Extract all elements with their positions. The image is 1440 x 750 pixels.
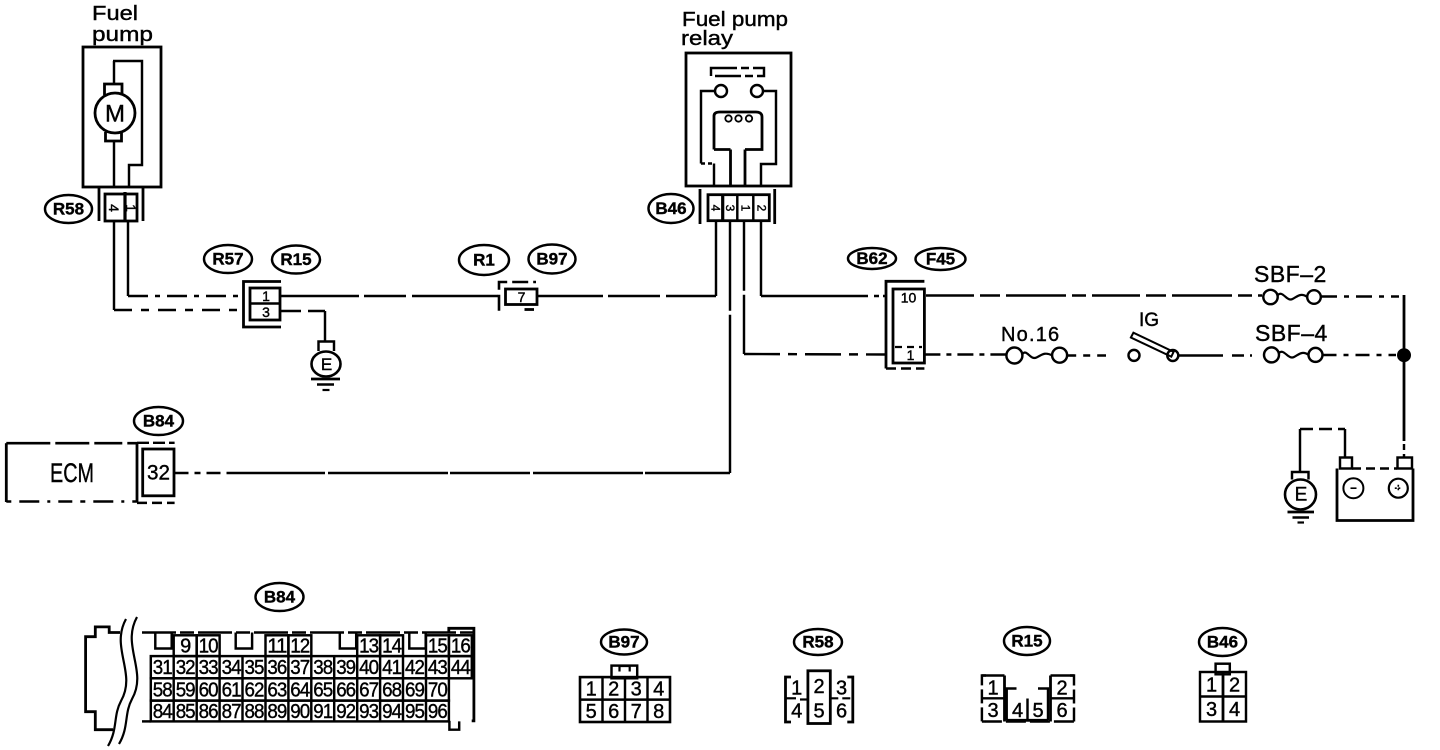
svg-text:2: 2 [608, 679, 619, 701]
svg-text:3: 3 [262, 304, 270, 320]
svg-text:10: 10 [199, 636, 219, 658]
svg-text:63: 63 [267, 680, 287, 702]
svg-text:R58: R58 [53, 200, 84, 219]
svg-text:87: 87 [222, 701, 242, 723]
svg-text:11: 11 [267, 636, 287, 658]
svg-text:B97: B97 [608, 633, 639, 652]
svg-text:4: 4 [1229, 699, 1240, 721]
svg-text:39: 39 [336, 657, 356, 679]
svg-text:68: 68 [382, 680, 402, 702]
svg-text:SBF–2: SBF–2 [1254, 261, 1327, 287]
svg-text:3: 3 [723, 205, 737, 212]
svg-text:35: 35 [245, 657, 265, 679]
svg-text:60: 60 [199, 680, 219, 702]
svg-text:B46: B46 [655, 199, 686, 218]
svg-text:88: 88 [245, 701, 265, 723]
svg-text:3: 3 [631, 679, 642, 701]
svg-text:SBF–4: SBF–4 [1255, 320, 1328, 346]
svg-text:R58: R58 [802, 633, 833, 652]
svg-text:96: 96 [428, 701, 448, 723]
svg-text:2: 2 [754, 205, 768, 212]
svg-text:R57: R57 [212, 250, 243, 269]
svg-text:1: 1 [586, 679, 597, 701]
svg-text:69: 69 [405, 680, 425, 702]
svg-text:4: 4 [791, 701, 802, 723]
svg-text:66: 66 [336, 680, 356, 702]
svg-text:1: 1 [123, 204, 139, 212]
svg-text:4: 4 [106, 204, 122, 212]
svg-text:10: 10 [901, 290, 917, 306]
svg-text:1: 1 [738, 205, 752, 212]
svg-text:90: 90 [290, 701, 310, 723]
svg-text:32: 32 [176, 657, 196, 679]
svg-text:67: 67 [359, 680, 379, 702]
svg-text:R15: R15 [1011, 632, 1042, 651]
svg-text:Fuel: Fuel [92, 3, 138, 25]
svg-text:2: 2 [814, 676, 825, 698]
svg-text:1: 1 [987, 678, 998, 700]
svg-text:R1: R1 [473, 251, 495, 270]
svg-text:B97: B97 [536, 250, 567, 269]
svg-text:R15: R15 [280, 250, 311, 269]
svg-text:86: 86 [199, 701, 219, 723]
svg-text:40: 40 [359, 657, 379, 679]
svg-text:94: 94 [382, 701, 402, 723]
svg-text:95: 95 [405, 701, 425, 723]
svg-text:62: 62 [245, 680, 265, 702]
svg-text:4: 4 [653, 679, 664, 701]
svg-text:pump: pump [92, 24, 153, 46]
svg-text:93: 93 [359, 701, 379, 723]
svg-text:16: 16 [451, 636, 471, 658]
svg-text:61: 61 [222, 680, 242, 702]
svg-text:M: M [105, 101, 125, 128]
svg-text:70: 70 [428, 680, 448, 702]
svg-text:4: 4 [709, 205, 723, 212]
svg-text:58: 58 [153, 680, 173, 702]
svg-text:43: 43 [428, 657, 448, 679]
svg-text:relay: relay [681, 28, 733, 50]
svg-text:34: 34 [222, 657, 242, 679]
svg-text:84: 84 [153, 701, 173, 723]
svg-text:6: 6 [1056, 700, 1067, 722]
svg-text:B62: B62 [856, 249, 887, 268]
svg-text:B84: B84 [143, 412, 175, 431]
svg-text:ECM: ECM [50, 458, 94, 488]
svg-text:IG: IG [1139, 310, 1159, 331]
svg-text:41: 41 [382, 657, 402, 679]
svg-text:No.16: No.16 [1001, 324, 1060, 346]
svg-text:6: 6 [608, 701, 619, 723]
svg-text:42: 42 [405, 657, 425, 679]
svg-text:6: 6 [836, 701, 847, 723]
svg-text:E: E [1295, 485, 1308, 506]
svg-text:5: 5 [1032, 700, 1043, 722]
svg-text:2: 2 [1056, 678, 1067, 700]
svg-text:3: 3 [987, 700, 998, 722]
svg-text:91: 91 [313, 701, 333, 723]
svg-text:B46: B46 [1207, 633, 1238, 652]
svg-text:12: 12 [290, 636, 310, 658]
svg-text:E: E [321, 355, 332, 374]
svg-text:36: 36 [267, 657, 287, 679]
svg-text:8: 8 [653, 701, 664, 723]
svg-text:13: 13 [359, 636, 379, 658]
svg-text:1: 1 [791, 678, 802, 700]
svg-text:85: 85 [176, 701, 196, 723]
svg-text:37: 37 [290, 657, 310, 679]
svg-text:2: 2 [1229, 675, 1240, 697]
svg-text:14: 14 [382, 636, 402, 658]
svg-text:92: 92 [336, 701, 356, 723]
svg-text:3: 3 [1206, 699, 1217, 721]
svg-text:32: 32 [147, 462, 170, 485]
svg-text:44: 44 [451, 657, 471, 679]
svg-text:3: 3 [836, 678, 847, 700]
svg-text:65: 65 [313, 680, 333, 702]
svg-text:59: 59 [176, 680, 196, 702]
svg-text:33: 33 [199, 657, 219, 679]
svg-text:64: 64 [290, 680, 310, 702]
svg-text:7: 7 [518, 289, 526, 305]
svg-text:1: 1 [1206, 675, 1217, 697]
svg-text:7: 7 [631, 701, 642, 723]
svg-text:5: 5 [814, 701, 825, 723]
svg-text:4: 4 [1012, 700, 1023, 722]
svg-text:89: 89 [267, 701, 287, 723]
svg-text:B84: B84 [264, 588, 296, 607]
svg-text:1: 1 [262, 288, 270, 304]
svg-text:1: 1 [907, 347, 915, 363]
svg-text:5: 5 [586, 701, 597, 723]
svg-text:15: 15 [428, 636, 448, 658]
svg-text:31: 31 [153, 657, 173, 679]
svg-text:38: 38 [313, 657, 333, 679]
svg-text:9: 9 [180, 636, 191, 658]
svg-text:F45: F45 [926, 250, 955, 269]
